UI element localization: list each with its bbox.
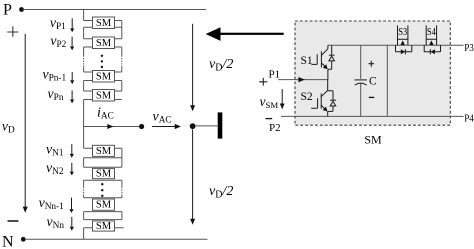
svg-text:P: P [3, 2, 12, 19]
svg-text:vD/2: vD/2 [209, 184, 233, 201]
svg-text:vNn-1: vNn-1 [39, 195, 65, 212]
svg-text:SM: SM [364, 133, 382, 147]
svg-text:SM: SM [96, 168, 112, 179]
svg-text:SM: SM [96, 38, 112, 49]
svg-text:S4: S4 [427, 27, 436, 38]
svg-text:vPn-1: vPn-1 [42, 67, 66, 84]
svg-text:N: N [2, 234, 14, 249]
svg-text:SM: SM [96, 91, 112, 102]
svg-text:P4: P4 [464, 113, 474, 125]
svg-text:vAC: vAC [153, 110, 172, 126]
svg-text:vN2: vN2 [46, 160, 64, 177]
svg-text:S1: S1 [301, 55, 313, 67]
svg-text:vN1: vN1 [46, 142, 64, 159]
svg-text:iAC: iAC [97, 106, 114, 122]
svg-text:P2: P2 [269, 122, 281, 134]
svg-text:SM: SM [96, 72, 112, 83]
svg-text:vP2: vP2 [50, 33, 66, 50]
svg-text:P1: P1 [269, 69, 281, 81]
svg-text:vSM: vSM [260, 94, 279, 110]
svg-text:S3: S3 [398, 27, 407, 38]
svg-text:S2: S2 [301, 91, 313, 103]
svg-text:P3: P3 [464, 42, 474, 54]
svg-text:vPn: vPn [48, 86, 64, 103]
svg-text:SM: SM [96, 18, 112, 29]
svg-text:C: C [369, 76, 377, 88]
svg-text:SM: SM [96, 221, 112, 232]
svg-text:vP1: vP1 [50, 15, 66, 32]
svg-text:vNn: vNn [47, 214, 65, 231]
svg-text:vD: vD [2, 119, 15, 136]
svg-text:SM: SM [96, 199, 112, 210]
svg-text:SM: SM [96, 146, 112, 157]
svg-text:vD/2: vD/2 [209, 57, 233, 74]
